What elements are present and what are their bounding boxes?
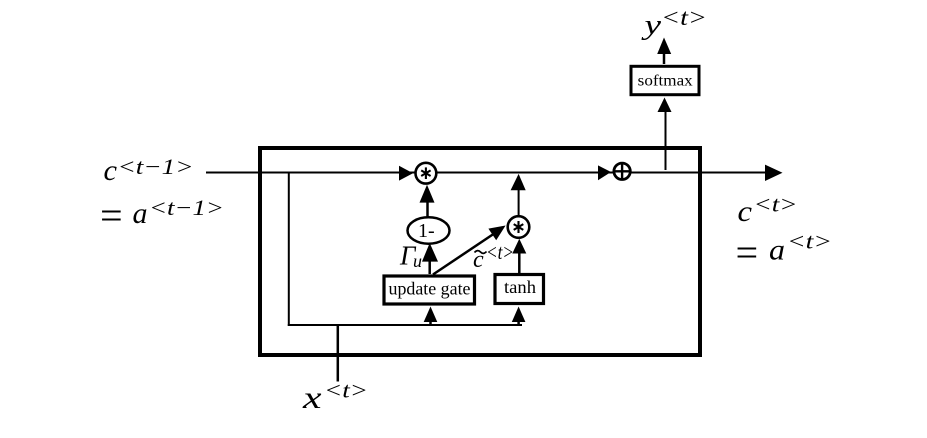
label = a<t-1> xyxy=(98,193,225,238)
svg-text:y: y xyxy=(641,10,662,41)
arrow into update gate xyxy=(424,307,438,327)
multiply node M2 xyxy=(508,216,530,238)
arrow softmax to y xyxy=(657,38,671,65)
softmax box xyxy=(631,66,699,94)
arrow M2 to main line xyxy=(511,174,526,216)
label c<t> xyxy=(738,192,798,229)
wire: bottom bus xyxy=(288,324,522,326)
svg-text:<t>: <t> xyxy=(754,192,798,217)
svg-text:<t>: <t> xyxy=(661,5,707,30)
svg-text:=: = xyxy=(98,193,125,238)
arrow into tanh xyxy=(512,307,526,327)
svg-text:a: a xyxy=(133,197,148,230)
label c~<t> xyxy=(473,240,514,273)
svg-text:c: c xyxy=(104,154,118,187)
svg-text:x: x xyxy=(302,379,322,415)
svg-text:tanh: tanh xyxy=(504,277,536,297)
svg-text:softmax: softmax xyxy=(638,73,693,90)
svg-text:c: c xyxy=(738,195,753,228)
label Gamma_u xyxy=(399,241,422,272)
svg-text:1-: 1- xyxy=(418,220,435,242)
arrowhead into add node S1 xyxy=(598,165,611,180)
wire: left vertical branch xyxy=(288,173,290,327)
svg-text:<t−1>: <t−1> xyxy=(149,195,224,220)
tanh box xyxy=(495,275,544,304)
svg-text:<t>: <t> xyxy=(324,378,368,403)
svg-text:u: u xyxy=(413,251,422,271)
svg-text:<t−1>: <t−1> xyxy=(118,154,194,179)
arrow 1- oval to multiply node M1 xyxy=(420,185,435,217)
arrowhead into multiply node M1 xyxy=(399,166,413,181)
arrow tanh to M2 xyxy=(512,239,526,273)
arrowhead: output c<t> xyxy=(765,165,783,181)
diagonal arrow update gate to multiply node M2 xyxy=(433,226,506,275)
arrow main line to softmax xyxy=(658,98,672,171)
arrow update gate to 1- oval xyxy=(422,243,438,274)
cell boundary box xyxy=(260,148,700,355)
add node S1 xyxy=(613,162,631,180)
label = a<t> xyxy=(733,229,832,276)
svg-text:=: = xyxy=(733,230,760,275)
label y<t> xyxy=(641,5,707,41)
multiply node M1 xyxy=(416,163,437,184)
label x<t> xyxy=(302,378,368,416)
svg-text:<t>: <t> xyxy=(787,229,832,254)
svg-text:a: a xyxy=(769,234,785,267)
svg-text:update gate: update gate xyxy=(389,279,471,299)
svg-text:<t>: <t> xyxy=(486,240,514,264)
wire: x input riser xyxy=(337,326,340,382)
oval 1- xyxy=(408,217,450,243)
update gate box xyxy=(384,276,475,304)
wire: main memory line (c path) xyxy=(206,172,766,174)
label c<t-1> xyxy=(104,154,194,187)
